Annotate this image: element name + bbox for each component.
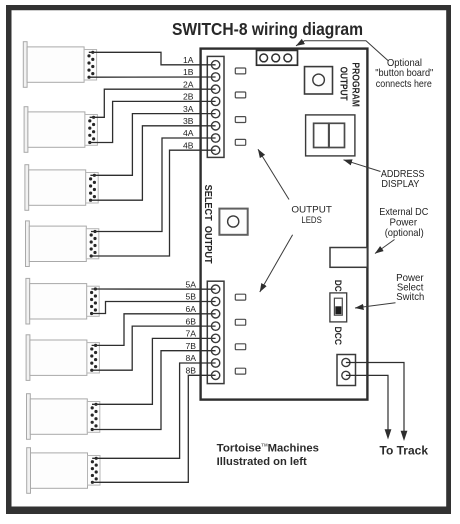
wire 3B bbox=[90, 126, 215, 200]
terminal 3B bbox=[211, 122, 219, 130]
output LED 1 bbox=[235, 68, 245, 74]
terminal 5B bbox=[211, 297, 219, 305]
leader arrow to address display bbox=[344, 160, 381, 172]
external DC power connector J2 bbox=[330, 248, 367, 268]
output LED 5 bbox=[235, 294, 245, 300]
wire 1B bbox=[89, 76, 216, 78]
terminal 4B bbox=[211, 146, 219, 154]
wire track A bbox=[346, 363, 404, 432]
terminal strip TB2 (outputs 5A-8B) bbox=[207, 281, 224, 383]
output LED 6 bbox=[235, 319, 245, 325]
caption tortoise machines bbox=[217, 442, 319, 468]
terminal 3A bbox=[211, 109, 219, 117]
svg-text:Switch: Switch bbox=[396, 292, 424, 303]
terminal 7A bbox=[211, 334, 219, 342]
output LED 2 bbox=[235, 92, 245, 98]
wire 7A bbox=[92, 338, 216, 404]
svg-text:8B: 8B bbox=[185, 366, 196, 376]
svg-text:DCC: DCC bbox=[333, 327, 343, 346]
wire 4A bbox=[91, 138, 216, 232]
terminal 4A bbox=[211, 134, 219, 142]
leader arrow to power switch bbox=[355, 303, 396, 308]
svg-text:To Track: To Track bbox=[380, 444, 429, 458]
terminal 6A bbox=[211, 310, 219, 318]
svg-text:DC: DC bbox=[333, 280, 343, 292]
note external DC power bbox=[379, 207, 428, 239]
terminal 1A bbox=[211, 61, 219, 69]
pushbutton SELECT bbox=[219, 209, 247, 235]
leader arrow to lower LEDs bbox=[260, 235, 293, 292]
terminal 2B bbox=[211, 97, 219, 105]
terminal strip TB1 (outputs 1A-4B) bbox=[207, 56, 224, 157]
tortoise machine M7 bbox=[27, 394, 100, 440]
wire 8A bbox=[92, 363, 215, 458]
leader arrow to DC connector bbox=[375, 240, 395, 254]
svg-text:Tortoise: Tortoise bbox=[217, 442, 262, 454]
svg-text:3B: 3B bbox=[183, 116, 194, 126]
arrow track B bbox=[385, 429, 392, 439]
svg-text:1B: 1B bbox=[183, 67, 194, 77]
label PROGRAM OUTPUT bbox=[337, 62, 360, 107]
svg-text:SWITCH-8 wiring diagram: SWITCH-8 wiring diagram bbox=[172, 19, 363, 39]
wire 3A bbox=[90, 114, 215, 176]
svg-text:OUTPUT: OUTPUT bbox=[291, 205, 332, 215]
tortoise machine M1 bbox=[23, 42, 96, 88]
wire 8B bbox=[92, 375, 215, 482]
svg-text:Power: Power bbox=[390, 218, 418, 229]
svg-text:"button board": "button board" bbox=[375, 68, 433, 79]
address display DS1 bbox=[306, 115, 355, 156]
wire 4B bbox=[91, 150, 216, 256]
svg-text:SELECT OUTPUT: SELECT OUTPUT bbox=[202, 185, 213, 264]
wire 5A bbox=[91, 288, 215, 290]
note optional button board bbox=[375, 58, 433, 90]
pushbutton PROGRAM bbox=[305, 67, 333, 94]
svg-text:8A: 8A bbox=[185, 353, 196, 363]
terminal 7B bbox=[211, 347, 219, 355]
terminal 6B bbox=[211, 322, 219, 330]
wire 1A bbox=[89, 52, 216, 65]
svg-text:LEDS: LEDS bbox=[301, 215, 322, 225]
svg-text:3A: 3A bbox=[183, 104, 194, 114]
terminal 5A bbox=[211, 285, 219, 293]
svg-text:4B: 4B bbox=[183, 140, 194, 150]
output LED 8 bbox=[235, 368, 245, 374]
wire 6B bbox=[92, 326, 216, 370]
svg-text:4A: 4A bbox=[183, 128, 194, 138]
wire 2A bbox=[90, 89, 216, 117]
wire 7B bbox=[92, 351, 216, 430]
svg-text:1A: 1A bbox=[183, 55, 194, 65]
terminal 2A bbox=[211, 85, 219, 93]
svg-text:PROGRAM: PROGRAM bbox=[349, 62, 360, 107]
svg-text:OUTPUT: OUTPUT bbox=[337, 67, 348, 101]
arrow track A bbox=[401, 431, 408, 441]
leader arrow to upper LEDs bbox=[258, 149, 289, 199]
wire 6A bbox=[92, 314, 216, 346]
leader arrow to button board connector bbox=[296, 41, 389, 61]
svg-text:7A: 7A bbox=[185, 329, 196, 339]
wire 5B bbox=[91, 302, 215, 314]
tortoise machine M6 bbox=[26, 335, 99, 381]
track output connector J3 bbox=[337, 355, 356, 386]
terminal 1B bbox=[211, 73, 219, 81]
wire track B bbox=[346, 375, 388, 429]
svg-text:2B: 2B bbox=[183, 92, 194, 102]
tortoise machine M3 bbox=[25, 165, 98, 211]
tortoise machine M8 bbox=[27, 448, 100, 494]
output LED 7 bbox=[235, 344, 245, 350]
tortoise machine M2 bbox=[24, 107, 97, 153]
output LED 3 bbox=[235, 117, 245, 123]
svg-text:DISPLAY: DISPLAY bbox=[381, 179, 419, 190]
svg-text:Machines: Machines bbox=[268, 442, 319, 454]
svg-text:6A: 6A bbox=[185, 304, 196, 314]
note power select switch bbox=[396, 273, 424, 303]
power select switch SW1 bbox=[330, 293, 347, 322]
tortoise machine M4 bbox=[26, 221, 99, 267]
svg-text:5B: 5B bbox=[185, 292, 196, 302]
output LED 4 bbox=[235, 139, 245, 145]
svg-text:Illustrated on left: Illustrated on left bbox=[217, 456, 307, 468]
svg-text:2A: 2A bbox=[183, 79, 194, 89]
svg-text:(optional): (optional) bbox=[385, 228, 424, 239]
wire 2B bbox=[90, 101, 216, 142]
svg-text:7B: 7B bbox=[185, 341, 196, 351]
note address display bbox=[381, 169, 425, 190]
svg-text:6B: 6B bbox=[185, 316, 196, 326]
terminal 8A bbox=[211, 359, 219, 367]
SWITCH-8 circuit board bbox=[201, 49, 368, 400]
svg-text:connects here: connects here bbox=[376, 79, 432, 90]
button board connector J1 bbox=[257, 50, 298, 65]
terminal 8B bbox=[211, 371, 219, 379]
tortoise machine M5 bbox=[26, 278, 99, 324]
svg-text:5A: 5A bbox=[185, 279, 196, 289]
note output LEDs bbox=[291, 205, 332, 226]
